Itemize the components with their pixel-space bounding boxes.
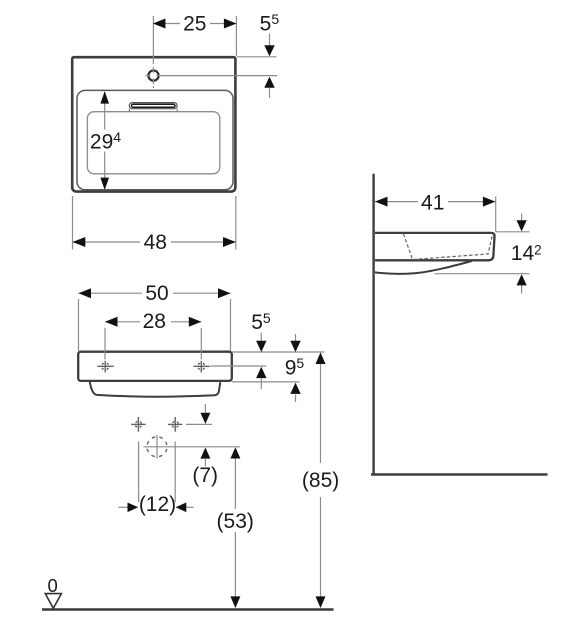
svg-text:(12): (12) [139,493,176,516]
svg-text:25: 25 [183,12,206,35]
svg-text:(7): (7) [192,464,218,487]
svg-text:48: 48 [144,231,167,254]
svg-text:41: 41 [421,192,444,215]
svg-text:50: 50 [145,282,168,305]
svg-text:(53): (53) [217,510,254,533]
svg-text:0: 0 [47,575,57,596]
svg-text:(85): (85) [302,469,339,492]
svg-text:28: 28 [143,310,166,333]
